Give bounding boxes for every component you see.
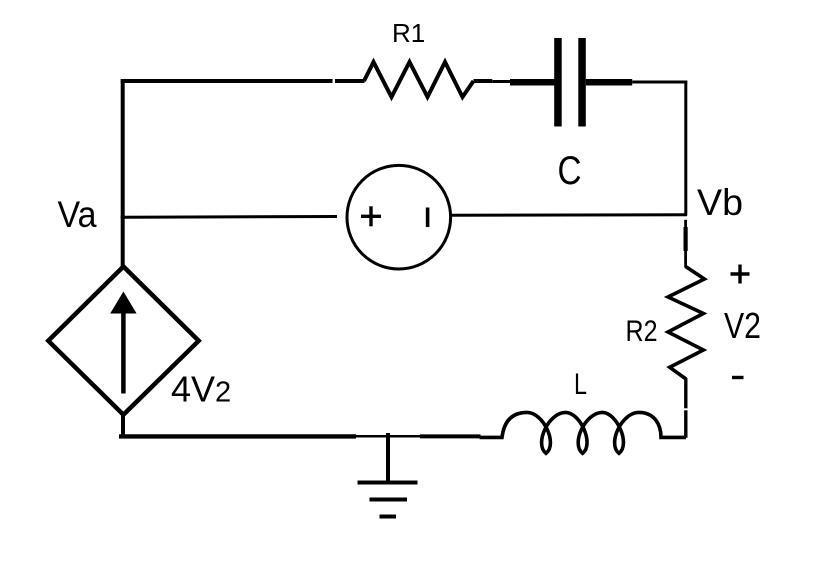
wire top horizontal segment 1 xyxy=(121,79,333,83)
wire bottom segment 1 xyxy=(119,434,356,438)
svg-text:V2: V2 xyxy=(724,305,761,346)
ground bar 3 xyxy=(380,515,397,519)
wire diamond bottom to bottom wire xyxy=(121,414,125,438)
inductor L xyxy=(480,412,687,453)
wire bottom segment 2 (thin at ground) xyxy=(356,435,420,438)
voltage source V1 circle xyxy=(347,165,451,269)
capacitor C right plate xyxy=(578,38,586,127)
wire R1 to C segment xyxy=(474,79,493,83)
wire left vertical xyxy=(121,79,125,268)
svg-text:Vb: Vb xyxy=(697,182,743,223)
dependent source arrowhead xyxy=(110,292,136,314)
wire right vertical lower upper part xyxy=(684,378,687,408)
capacitor C left plate xyxy=(554,38,562,127)
dependent source diamond xyxy=(48,267,198,415)
ground stem xyxy=(386,433,390,482)
resistor R2 top lead xyxy=(684,220,687,268)
dependent source arrow shaft xyxy=(121,308,126,394)
wire C to top-right corner xyxy=(632,81,687,84)
ground bar 1 xyxy=(358,481,418,485)
svg-text:R2: R2 xyxy=(626,315,658,348)
V1 plus sign vertical xyxy=(369,206,372,226)
ground bar 2 xyxy=(370,498,408,502)
label minus of V2 xyxy=(732,376,744,379)
wire right vertical lower lower part xyxy=(684,410,687,438)
svg-text:C: C xyxy=(558,149,582,193)
capacitor C right lead xyxy=(586,79,632,86)
wire bottom segment 3 xyxy=(420,434,481,438)
wire top horizontal segment 2 xyxy=(335,79,365,83)
V1 plus sign horizontal xyxy=(361,215,381,218)
svg-text:R1: R1 xyxy=(392,18,425,48)
V1 minus bar xyxy=(426,208,430,228)
label plus of V2 xyxy=(731,272,750,275)
wire thin before C lead xyxy=(492,80,511,83)
resistor R1 xyxy=(364,62,474,97)
svg-text:L: L xyxy=(574,368,587,401)
resistor R2 xyxy=(668,267,704,380)
wire right vertical upper xyxy=(684,81,687,216)
capacitor C left lead xyxy=(510,79,555,86)
svg-text:Va: Va xyxy=(58,194,97,235)
wire middle right xyxy=(451,213,687,217)
resistor R2 top lead thick part xyxy=(683,227,687,251)
wire middle left xyxy=(121,215,337,219)
